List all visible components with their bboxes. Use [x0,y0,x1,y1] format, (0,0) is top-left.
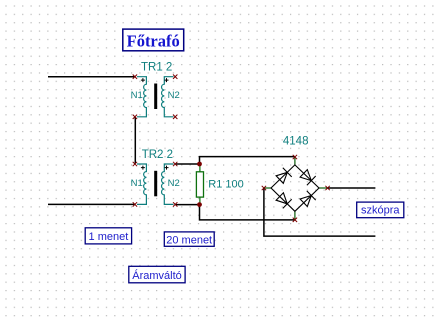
diode D1 top-left (anode left, cathode top) [276,168,292,184]
svg-text:TR1 2: TR1 2 [141,62,172,74]
TR2 pin X bottom-right [173,202,177,206]
bridge pin lead bottom [294,211,296,219]
svg-text:N1: N1 [131,178,143,189]
TR2 plus mark left [141,166,145,170]
label box Áramváltó [129,266,185,283]
label box 20 menet [164,232,214,246]
svg-text:4148: 4148 [283,135,309,147]
svg-text:N1: N1 [131,90,143,101]
wire W3 input bottom-left to TR2 bottom pin [48,203,135,205]
transformer TR1 [133,75,178,120]
wire W2 TR1 bottom-left to TR2 top-left [134,77,136,164]
svg-text:N2: N2 [168,90,180,101]
TR2 core [154,171,157,197]
bridge pin lead top [294,157,296,165]
svg-text:R1 100: R1 100 [208,179,243,191]
diode bridge [262,155,330,222]
node A junction dot [197,162,202,167]
svg-text:N2: N2 [168,178,180,189]
TR1 pin X top-left [133,75,137,79]
TR1 primary winding N1 [137,77,146,117]
wire W9 bridge right vertex to output [328,187,376,189]
diode D4 bottom-right (anode bottom, cathode right) [300,191,316,207]
TR1 plus mark left [141,78,145,82]
bridge pin lead right [319,187,327,189]
svg-text:TR2 2: TR2 2 [142,149,173,161]
wire W5 TR2 bottom-right to node B [175,204,199,206]
svg-text:Főtrafó: Főtrafó [127,31,180,50]
wire W7 node B down and right to bridge bottom [200,205,295,220]
TR1 pin X bottom-right [173,115,177,119]
wire W6 node A up and right to bridge top [200,157,295,164]
TR1 core [154,84,157,110]
TR1 secondary winding N2 [162,77,174,117]
label box 1 menet [85,228,131,244]
bridge diamond edges [271,165,319,211]
resistor R1 [196,164,203,205]
TR2 pin X bottom-left [133,202,137,206]
bridge pin X top [293,155,297,159]
bridge pin lead left [264,187,271,189]
transformer TR2 [133,162,178,207]
diode D3 bottom-left (anode left, cathode bottom) [276,193,292,209]
TR1 pin X bottom-left [133,115,137,119]
bridge pin X left [262,186,266,190]
TR1 plus mark right [165,78,169,82]
diode D2 top-right (anode top, cathode right) [300,170,316,186]
TR1 pin X top-right [173,75,177,79]
svg-text:20 menet: 20 menet [166,234,212,246]
title box Főtrafó [123,29,184,51]
svg-text:Áramváltó: Áramváltó [132,269,182,282]
TR2 plus mark right [165,166,169,170]
svg-text:1 menet: 1 menet [89,231,129,243]
bridge pin X bottom [293,218,297,222]
label box szkópra [357,202,404,218]
svg-text:szkópra: szkópra [361,204,400,216]
TR2 pin X top-right [173,162,177,166]
TR2 secondary winding N2 [162,164,174,204]
bridge pin X right [325,186,329,190]
wire W8 bridge left vertex down and right to output [264,188,376,236]
node B junction dot [197,202,202,207]
TR2 primary winding N1 [137,164,146,204]
wire W1 input top-left to TR1 pin [48,76,135,78]
TR2 pin X top-left [133,162,137,166]
wire W4 TR2 top-right to node A [175,163,199,165]
